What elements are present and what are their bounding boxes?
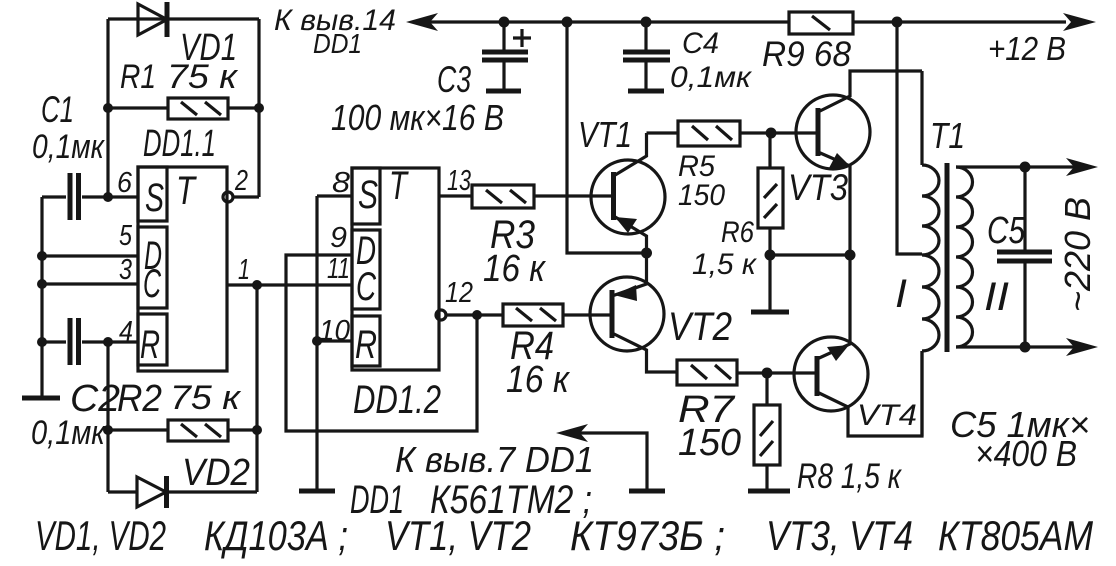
svg-text:T: T <box>389 164 409 208</box>
svg-text:К выв.7 DD1: К выв.7 DD1 <box>395 439 594 480</box>
node R2 right <box>252 425 262 435</box>
wire emitter ground VT3 VT4 <box>770 253 850 256</box>
resistor R7 <box>677 360 817 385</box>
node R6 bottom <box>765 250 776 261</box>
pin labels DD1.1 <box>117 165 250 348</box>
ground mid <box>751 255 789 312</box>
ground к выв.7 with arrow <box>556 424 665 491</box>
node C5 bottom <box>1020 342 1031 353</box>
svg-text:0,1мк: 0,1мк <box>32 128 106 166</box>
wire pin5 <box>42 254 138 257</box>
node R1 left <box>103 103 113 113</box>
svg-text:0,1мк: 0,1мк <box>670 61 753 94</box>
wire left rail <box>40 197 43 396</box>
svg-text:75 к: 75 к <box>167 58 239 96</box>
svg-text:150: 150 <box>678 422 741 464</box>
label R2 75к <box>117 378 242 420</box>
label C2 <box>31 378 120 452</box>
pin 12 inversion circle DD1.2 <box>436 310 503 320</box>
svg-text:DD1: DD1 <box>313 28 362 59</box>
ground C3 <box>486 89 521 94</box>
svg-text:R1: R1 <box>120 58 156 96</box>
svg-text:4: 4 <box>119 316 133 348</box>
capacitor C2 <box>42 318 138 365</box>
svg-text:КД103А ;: КД103А ; <box>204 512 348 559</box>
resistor R3 <box>472 185 613 208</box>
arrow +12V <box>1063 13 1096 31</box>
diode VD1 <box>138 2 167 37</box>
wire secondary bottom <box>956 345 1090 348</box>
resistor R5 <box>647 121 819 146</box>
svg-text:С3: С3 <box>437 59 471 100</box>
svg-text:R: R <box>355 323 377 367</box>
transistor VT2 <box>590 253 677 372</box>
caption parts list <box>35 512 1093 559</box>
svg-text:10: 10 <box>319 315 350 347</box>
svg-text:3: 3 <box>119 254 132 286</box>
label DD1 К561ТМ2 <box>350 478 592 522</box>
flip-flop DD1.1 <box>138 167 227 371</box>
transformer T1 core <box>945 163 950 352</box>
label C4 <box>670 27 753 94</box>
wire VD1 loop left vertical <box>106 19 109 197</box>
transistor VT1 <box>591 133 665 253</box>
arrow top-left к выв.14 <box>406 13 438 31</box>
node C5 top <box>1020 162 1031 173</box>
svg-text:II: II <box>984 275 1009 319</box>
label R7 150 <box>678 389 741 464</box>
wire top rail <box>420 20 1066 23</box>
node emitters VT1 VT2 <box>641 248 652 259</box>
svg-text:VT1, VT2: VT1, VT2 <box>385 512 531 559</box>
node C3 <box>499 17 510 28</box>
svg-text:×400 В: ×400 В <box>975 433 1077 474</box>
svg-text:VT1: VT1 <box>578 114 632 155</box>
svg-text:С5: С5 <box>987 210 1026 252</box>
ground left <box>22 396 60 401</box>
capacitor C1 <box>42 173 138 220</box>
svg-text:КТ805АМ: КТ805АМ <box>938 512 1093 559</box>
svg-text:2: 2 <box>234 165 248 197</box>
node R2 left <box>103 425 113 435</box>
label R6 1,5к <box>692 216 758 281</box>
label R3 16к <box>483 213 547 290</box>
svg-text:0,1мк: 0,1мк <box>31 414 107 452</box>
svg-text:I: I <box>895 272 907 316</box>
node pin12 <box>472 310 482 320</box>
pin 2 inversion circle DD1.1 <box>223 192 259 202</box>
svg-text:VT2: VT2 <box>668 305 732 349</box>
resistor R9 <box>789 12 853 34</box>
node pin5 <box>37 251 47 261</box>
node rail T1 <box>892 17 903 28</box>
svg-text:VT3: VT3 <box>788 167 848 208</box>
svg-text:C: C <box>143 262 162 306</box>
label C3 <box>331 59 504 138</box>
transistor VT3 <box>796 71 922 255</box>
svg-text:8: 8 <box>332 167 350 199</box>
svg-text:75 к: 75 к <box>170 379 242 417</box>
svg-text:5: 5 <box>119 220 133 252</box>
svg-text:1: 1 <box>238 254 250 286</box>
wire pin10 <box>317 339 352 342</box>
wire VD1 top <box>108 17 259 20</box>
letters DD1.1 <box>140 169 197 367</box>
label C1 <box>32 89 106 166</box>
svg-text:R9 68: R9 68 <box>762 35 851 74</box>
label R4 16к <box>506 324 571 401</box>
svg-text:9: 9 <box>330 222 347 254</box>
transistor VT4 <box>794 255 922 436</box>
wire pin1 output to pin11 <box>227 283 352 286</box>
ground R8 <box>748 489 790 494</box>
plus sign C3 <box>513 29 531 47</box>
svg-text:S: S <box>145 176 164 220</box>
label R1 75к <box>120 58 239 96</box>
resistor R2 <box>108 420 257 441</box>
transformer T1 primary I <box>922 71 939 436</box>
wire pin13 <box>439 194 472 197</box>
resistor R8 <box>754 373 780 489</box>
wire pin3 <box>42 282 138 285</box>
node R1 right <box>254 103 264 113</box>
svg-text:R: R <box>140 323 160 367</box>
pin labels DD1.2 <box>319 165 473 347</box>
svg-text:КТ973Б ;: КТ973Б ; <box>570 512 725 559</box>
svg-text:1,5 к: 1,5 к <box>692 248 758 281</box>
node pin1 <box>252 280 262 290</box>
node C1 / pin6 <box>103 192 113 202</box>
label R5 150 <box>678 150 725 212</box>
svg-text:+12 В: +12 В <box>988 30 1066 67</box>
svg-text:R8 1,5 к: R8 1,5 к <box>797 457 902 496</box>
svg-text:S: S <box>358 173 378 217</box>
capacitor C4 <box>623 22 670 90</box>
arrow output bottom <box>1066 338 1098 356</box>
wire secondary top <box>956 165 1090 168</box>
svg-text:T: T <box>176 169 197 213</box>
wire DD1.2 S/R ground line <box>317 196 352 489</box>
capacitor C3 <box>482 22 528 90</box>
node VT3 emitter <box>845 250 856 261</box>
svg-text:13: 13 <box>447 165 471 197</box>
transformer T1 secondary II <box>956 167 973 347</box>
label К выв.14 DD1 <box>274 4 396 59</box>
svg-text:6: 6 <box>117 167 133 199</box>
svg-text:С4: С4 <box>682 27 719 60</box>
wire VD2 loop right vertical <box>255 285 258 492</box>
wire pin9 feedback <box>286 255 477 431</box>
svg-text:R6: R6 <box>721 216 754 249</box>
svg-text:11: 11 <box>327 253 350 285</box>
diode VD2 <box>108 476 257 508</box>
svg-text:Т1: Т1 <box>930 115 965 156</box>
svg-text:100 мк×16 В: 100 мк×16 В <box>331 97 504 138</box>
node rail drop <box>562 17 573 28</box>
wire VD2 loop left vertical <box>106 342 109 492</box>
flip-flop DD1.2 <box>352 168 439 370</box>
svg-text:~220 В: ~220 В <box>1057 197 1098 312</box>
svg-text:16 к: 16 к <box>506 359 571 401</box>
resistor R1 <box>108 98 259 119</box>
capacitor C5 <box>997 167 1052 347</box>
ground C4 <box>628 89 664 94</box>
svg-text:VT3, VT4: VT3, VT4 <box>766 512 913 559</box>
svg-text:DD1.2: DD1.2 <box>353 378 441 422</box>
node pin10 <box>312 336 322 346</box>
label C5 value <box>950 404 1090 474</box>
node R7 right <box>762 368 773 379</box>
svg-text:VT4: VT4 <box>857 399 917 432</box>
node C2 left <box>37 337 47 347</box>
resistor R4 <box>503 304 612 326</box>
svg-text:C: C <box>356 265 377 309</box>
wire +12 drop to emitters <box>567 22 646 253</box>
letters DD1.2 <box>355 164 409 367</box>
svg-text:С1: С1 <box>41 89 74 130</box>
arrow output top <box>1066 158 1098 176</box>
svg-text:VD1, VD2: VD1, VD2 <box>35 512 166 559</box>
wire VD1 loop right vertical <box>257 19 260 197</box>
svg-text:R2: R2 <box>117 378 162 420</box>
ground DD1.2 <box>299 489 335 494</box>
wire center tap T1 <box>897 22 922 254</box>
svg-text:12: 12 <box>445 277 473 309</box>
svg-text:16 к: 16 к <box>483 248 547 290</box>
node pin4 <box>103 337 113 347</box>
resistor R6 <box>758 133 783 255</box>
node C4 <box>641 17 652 28</box>
svg-text:VD2: VD2 <box>182 452 250 494</box>
svg-text:DD1.1: DD1.1 <box>143 123 216 165</box>
svg-text:150: 150 <box>678 179 725 212</box>
node R5 right <box>766 128 777 139</box>
node pin3 <box>37 279 47 289</box>
